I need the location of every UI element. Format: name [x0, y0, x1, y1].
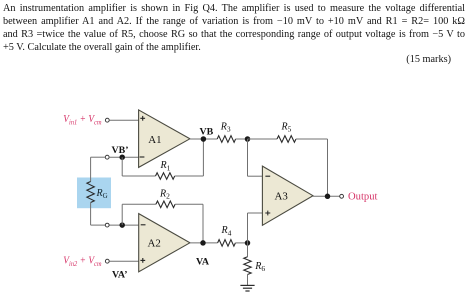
- junction output feedback: [325, 194, 331, 200]
- wire R2 to VA node: [175, 204, 203, 243]
- svg-text:Vin1 + Vcm: Vin1 + Vcm: [63, 114, 101, 126]
- wire RG down to VA' node: [90, 203, 92, 226]
- junction R4/R6/A3+: [245, 240, 251, 246]
- wire VB' node down to R1: [122, 157, 155, 176]
- svg-text:R5: R5: [281, 121, 292, 133]
- terminal on A2 - input: [105, 223, 109, 227]
- node VB' label: [112, 145, 129, 156]
- svg-text:A2: A2: [148, 238, 161, 250]
- wire A2 - node up to R2: [122, 204, 156, 225]
- resistor R5: [277, 121, 296, 142]
- wire A2 output to R4: [190, 242, 218, 244]
- wire A3 output: [313, 195, 340, 197]
- ground: [240, 285, 254, 291]
- svg-text:R2: R2: [159, 188, 170, 200]
- node VA' label: [112, 270, 128, 281]
- resistor R6: [244, 257, 266, 275]
- wire R5 down to output node: [296, 139, 328, 196]
- resistor RG: [87, 182, 108, 203]
- wire junction down to A3 - input: [248, 139, 264, 176]
- wire Vin2 to A2 + input: [109, 260, 139, 262]
- junction VB: [201, 136, 207, 142]
- wire VA' horizontal to A2 - input: [91, 224, 139, 226]
- wire R4 to junction: [235, 242, 247, 244]
- op-amp A2: [139, 214, 190, 272]
- svg-text:A1: A1: [148, 134, 161, 146]
- wire R6 to ground: [247, 275, 249, 286]
- terminal VB': [105, 155, 109, 159]
- resistor R2: [156, 188, 175, 207]
- resistor R3: [217, 121, 235, 142]
- wire R3 to junction: [236, 138, 248, 140]
- wire A1 output to R3: [190, 138, 217, 140]
- terminal Vin2: [105, 259, 109, 263]
- svg-text:R6: R6: [254, 261, 265, 273]
- wire junction down to R6: [247, 243, 249, 257]
- svg-text:Output: Output: [348, 191, 377, 202]
- svg-text:R4: R4: [221, 225, 232, 237]
- junction A2 - input node: [119, 222, 125, 228]
- wire junction to R5: [248, 138, 278, 140]
- highlight box around RG: [77, 178, 111, 209]
- svg-text:R1: R1: [160, 160, 171, 172]
- svg-text:VB’: VB’: [112, 145, 129, 156]
- junction VB' node: [119, 154, 125, 160]
- terminal Output: [340, 194, 344, 198]
- junction VA: [200, 240, 206, 246]
- svg-text:VA’: VA’: [112, 270, 128, 281]
- op-amp A1: [139, 110, 190, 167]
- node Vin1 input label: [63, 114, 101, 126]
- wire VB' node down to RG: [90, 157, 92, 181]
- node VB label: [200, 126, 214, 137]
- resistor R4: [218, 225, 236, 246]
- resistor R1: [156, 160, 175, 179]
- svg-text:A3: A3: [275, 190, 289, 202]
- wire junction up to A3 + input: [248, 213, 264, 243]
- wire Vin1 to A1 + input: [109, 119, 139, 121]
- svg-text:Vin2 + Vcm: Vin2 + Vcm: [63, 256, 101, 268]
- node VA label: [196, 256, 210, 267]
- svg-text:R3: R3: [220, 121, 231, 133]
- node Output label: [348, 191, 377, 202]
- svg-text:VB: VB: [200, 126, 214, 137]
- op-amp A3: [262, 166, 313, 225]
- wire R1 to VB node: [175, 139, 204, 176]
- junction R3/R5/A3-: [245, 136, 251, 142]
- node Vin2 input label: [63, 256, 101, 268]
- wire VB' horizontal to A1 - input: [91, 156, 139, 158]
- terminal Vin1: [105, 118, 109, 122]
- svg-text:VA: VA: [196, 256, 210, 267]
